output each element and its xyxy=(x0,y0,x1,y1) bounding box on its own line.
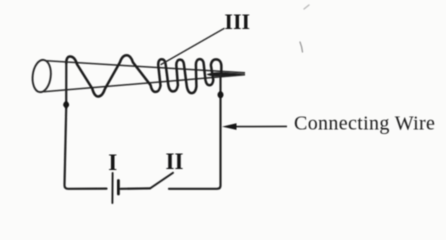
noise tick top right xyxy=(304,5,309,9)
noise tick right middle xyxy=(300,42,303,52)
nail head ellipse xyxy=(31,59,53,93)
switch II : open arm xyxy=(150,173,173,189)
coil III winding xyxy=(66,55,221,96)
nail (cone) body xyxy=(31,59,245,93)
junction dot left wire xyxy=(63,101,69,110)
arrow for Connecting Wire xyxy=(236,125,287,127)
battery cell I : long plate xyxy=(111,173,113,203)
pointer line for III xyxy=(161,29,224,65)
junction dot right wire xyxy=(218,91,224,98)
nail top edge xyxy=(47,61,246,73)
nail bottom edge xyxy=(44,75,246,92)
wire: battery to switch xyxy=(121,187,151,190)
svg-text:II: II xyxy=(166,149,184,174)
nail tip (filled sliver) xyxy=(207,72,246,76)
svg-text:I: I xyxy=(108,150,117,175)
wire: switch right contact to right corner xyxy=(169,75,221,189)
battery cell I : short thick plate xyxy=(117,181,120,195)
wire: left vertical (coil lead down through nail to circuit) xyxy=(65,62,107,189)
svg-text:III: III xyxy=(224,9,250,34)
svg-text:Connecting Wire: Connecting Wire xyxy=(294,112,435,134)
